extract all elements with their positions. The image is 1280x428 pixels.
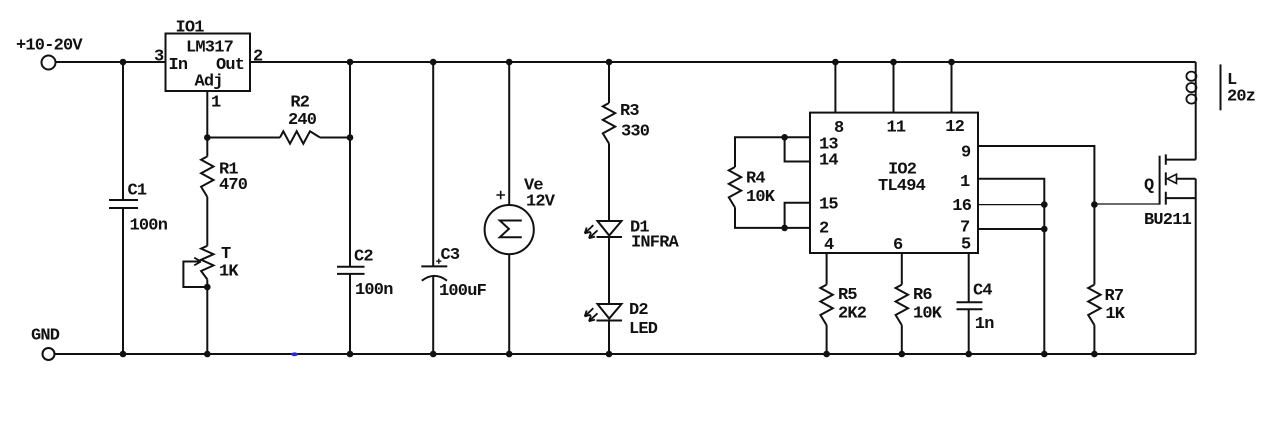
svg-text:1K: 1K: [1105, 305, 1125, 324]
svg-text:BU211: BU211: [1144, 211, 1192, 230]
svg-text:R2: R2: [290, 94, 309, 113]
svg-text:15: 15: [819, 196, 838, 215]
svg-text:11: 11: [887, 119, 906, 138]
svg-text:TL494: TL494: [878, 177, 926, 196]
svg-text:10K: 10K: [746, 188, 776, 207]
svg-text:12V: 12V: [526, 193, 556, 212]
svg-text:R5: R5: [838, 286, 857, 305]
svg-text:470: 470: [219, 176, 248, 195]
svg-text:R4: R4: [746, 170, 765, 189]
svg-text:1K: 1K: [219, 263, 239, 282]
svg-text:20z: 20z: [1227, 88, 1255, 107]
svg-text:1: 1: [211, 94, 221, 113]
svg-text:330: 330: [621, 123, 650, 142]
svg-text:C4: C4: [973, 282, 992, 301]
svg-text:D2: D2: [629, 301, 648, 320]
svg-text:R7: R7: [1105, 287, 1124, 306]
svg-text:C1: C1: [128, 182, 147, 201]
svg-text:12: 12: [945, 118, 964, 137]
svg-text:1: 1: [960, 173, 970, 192]
svg-text:2K2: 2K2: [838, 305, 867, 324]
svg-text:16: 16: [952, 197, 971, 216]
svg-text:100n: 100n: [130, 217, 168, 236]
svg-text:In: In: [169, 56, 188, 75]
svg-text:2: 2: [253, 48, 263, 67]
svg-text:T: T: [221, 245, 231, 264]
svg-text:7: 7: [960, 219, 970, 238]
svg-text:+10-20V: +10-20V: [16, 37, 83, 56]
svg-text:14: 14: [819, 152, 838, 171]
svg-text:5: 5: [961, 236, 971, 255]
svg-text:9: 9: [961, 144, 971, 163]
svg-text:6: 6: [893, 236, 903, 255]
svg-text:Adj: Adj: [195, 73, 223, 92]
svg-text:LED: LED: [629, 320, 658, 339]
svg-text:100uF: 100uF: [439, 282, 487, 301]
svg-text:IO1: IO1: [176, 19, 205, 38]
svg-text:3: 3: [154, 48, 164, 67]
svg-text:R3: R3: [620, 102, 639, 121]
svg-text:LM317: LM317: [186, 39, 234, 58]
svg-text:INFRA: INFRA: [631, 234, 680, 253]
svg-text:C2: C2: [354, 248, 373, 267]
svg-text:10K: 10K: [913, 305, 943, 324]
svg-text:240: 240: [288, 111, 317, 130]
svg-text:C3: C3: [441, 246, 460, 265]
svg-text:Q: Q: [1144, 177, 1154, 196]
svg-text:4: 4: [824, 236, 834, 255]
svg-text:R6: R6: [913, 286, 932, 305]
svg-text:1n: 1n: [975, 315, 994, 334]
svg-text:GND: GND: [31, 327, 60, 346]
svg-text:100n: 100n: [355, 281, 393, 300]
